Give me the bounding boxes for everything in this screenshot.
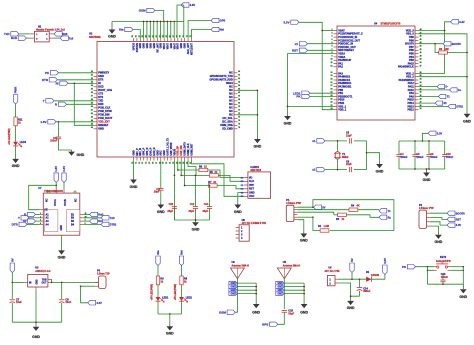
svg-text:D+: D+ bbox=[458, 89, 462, 92]
wire x1 to PD0 bbox=[308, 43, 334, 45]
capacitor C4 10pF bbox=[158, 187, 163, 189]
net flag DTR2 u4 bbox=[419, 105, 449, 107]
capacitor C14 390uF bbox=[359, 279, 361, 287]
svg-text:GND: GND bbox=[234, 210, 242, 214]
connector U8 JST PH 2.54MM 5 PIN bbox=[239, 225, 249, 241]
wire BOOT0 bbox=[419, 43, 444, 45]
svg-text:2: 2 bbox=[40, 216, 41, 218]
wire antenna1 gnd 3 bbox=[237, 289, 256, 291]
svg-text:C12: C12 bbox=[190, 203, 195, 206]
svg-text:NC: NC bbox=[46, 198, 49, 202]
svg-text:68: 68 bbox=[238, 99, 240, 101]
ground regulator bbox=[35, 322, 37, 327]
svg-text:GND: GND bbox=[435, 240, 443, 244]
wire VSS rail right bbox=[419, 34, 468, 112]
wire T to TXD bbox=[54, 100, 94, 102]
wires USIM group down bbox=[173, 161, 175, 221]
wire VDD_3 to rail bbox=[419, 30, 445, 32]
svg-text:10K: 10K bbox=[445, 48, 450, 51]
wire antenna2 gnd 1 bbox=[284, 282, 304, 284]
wire PK to PWRKEY bbox=[59, 72, 94, 74]
svg-text:21: 21 bbox=[331, 98, 333, 100]
wire P3 to 3.3V flag bbox=[81, 286, 88, 303]
wire antenna2 gnd 2 bbox=[284, 286, 304, 288]
svg-text:13: 13 bbox=[331, 72, 333, 74]
IC U7 level translator bbox=[43, 193, 80, 235]
svg-text:GND: GND bbox=[231, 294, 236, 296]
wire R11 to LED4 bbox=[15, 126, 17, 142]
net flag GPS bbox=[211, 18, 219, 22]
net flag 5V p1 bbox=[314, 205, 322, 209]
svg-text:43: 43 bbox=[91, 116, 93, 119]
net flag BOOT0 bbox=[443, 42, 451, 46]
svg-text:RI: RI bbox=[56, 81, 59, 85]
U7 left pin stubs bbox=[40, 214, 44, 216]
svg-text:GND: GND bbox=[347, 306, 355, 310]
wire U2 pin to C4 bbox=[160, 161, 162, 189]
svg-text:33pF: 33pF bbox=[202, 210, 208, 213]
junction right rail bbox=[257, 114, 259, 116]
resistor R6 10K pullup bbox=[439, 51, 448, 54]
svg-text:3.3V: 3.3V bbox=[62, 166, 66, 172]
wire P1 pin5 bbox=[297, 216, 313, 218]
svg-text:GND: GND bbox=[284, 122, 292, 126]
svg-text:16: 16 bbox=[331, 82, 333, 84]
ground key bbox=[462, 284, 464, 289]
svg-text:GND: GND bbox=[58, 255, 66, 259]
svg-text:3.8V: 3.8V bbox=[383, 258, 387, 264]
net flag GPS bottom bbox=[270, 322, 278, 326]
svg-text:10: 10 bbox=[331, 59, 333, 61]
ground right of U4 bbox=[466, 112, 468, 114]
ground crystal bbox=[379, 162, 381, 164]
net flag GND antenna1 3 bbox=[229, 288, 238, 292]
svg-text:4: 4 bbox=[40, 222, 41, 225]
wire VSS_1 to rail bbox=[288, 105, 334, 107]
ground right of U2 bbox=[256, 137, 258, 139]
ground GND23 bbox=[111, 22, 113, 30]
junction dots USIM bbox=[174, 175, 176, 177]
svg-text:4: 4 bbox=[331, 38, 332, 41]
diode D1 1N4001 bbox=[366, 277, 372, 282]
svg-text:46: 46 bbox=[91, 126, 93, 129]
ground LEDs bbox=[169, 325, 171, 327]
wire bus extension bbox=[174, 21, 184, 23]
svg-text:19: 19 bbox=[163, 162, 165, 164]
wire SIM VPP bbox=[195, 167, 197, 176]
capacitor C5 22pF bbox=[349, 138, 351, 143]
wire LED join rail bbox=[158, 313, 182, 315]
U4 left pins bbox=[334, 30, 338, 32]
svg-text:GND: GND bbox=[376, 170, 384, 174]
IC U3 AMS1117-3.3 bbox=[28, 274, 48, 287]
wire VSS_2 to rail bbox=[419, 76, 468, 78]
svg-text:x1: x1 bbox=[312, 139, 316, 143]
net flag PK bbox=[50, 71, 58, 75]
wire antenna1 gnd 4 bbox=[237, 293, 256, 295]
net flag 1.8V bbox=[48, 120, 56, 124]
net flag R1 bbox=[419, 102, 436, 104]
SIM card pins bbox=[244, 177, 248, 179]
svg-text:11: 11 bbox=[331, 62, 333, 64]
svg-text:3: 3 bbox=[331, 36, 332, 38]
capacitor C12 33pF bbox=[195, 175, 197, 206]
svg-text:42: 42 bbox=[91, 112, 93, 115]
svg-text:SIM7600E: SIM7600E bbox=[89, 36, 101, 39]
wire vertical DTR net bbox=[74, 83, 93, 125]
net flag DTR2 u7 bbox=[83, 223, 101, 225]
U7 NC circles bbox=[47, 191, 49, 193]
wire U6 pin2 to ground rail bbox=[339, 283, 360, 296]
wire to SIM VCC bbox=[191, 164, 244, 197]
crystal Y1 8MHz bbox=[335, 152, 340, 159]
wire regulator bottom rail bbox=[12, 321, 61, 323]
svg-text:40: 40 bbox=[420, 54, 422, 57]
svg-text:16: 16 bbox=[152, 162, 154, 164]
svg-text:GND: GND bbox=[300, 239, 308, 243]
wire D1 to 3.8V flag bbox=[372, 275, 385, 280]
svg-text:12: 12 bbox=[139, 162, 141, 164]
wire OE loop bbox=[29, 185, 57, 209]
svg-text:T: T bbox=[18, 216, 20, 220]
ground below C11 bbox=[71, 150, 73, 152]
net flag RxD bbox=[18, 36, 26, 40]
net flag T bbox=[46, 99, 54, 103]
svg-text:GND: GND bbox=[463, 120, 471, 124]
wire R2 to junction bbox=[313, 217, 320, 230]
wire VCCB down bbox=[63, 190, 65, 194]
wire crystal right vertical bbox=[366, 141, 368, 170]
net flag RST p2 bbox=[447, 217, 455, 221]
svg-text:RST: RST bbox=[456, 218, 462, 222]
wire U2 right pin to GND rail bbox=[238, 90, 258, 137]
svg-text:37: 37 bbox=[91, 96, 93, 98]
svg-text:76: 76 bbox=[238, 127, 240, 129]
svg-text:30: 30 bbox=[420, 92, 422, 94]
svg-text:71: 71 bbox=[238, 110, 240, 112]
svg-text:5V: 5V bbox=[322, 205, 325, 209]
capacitor C16 33pF bbox=[172, 206, 177, 208]
svg-text:64: 64 bbox=[238, 84, 240, 87]
svg-text:PA2: PA2 bbox=[338, 66, 343, 69]
net flag Sta bbox=[125, 27, 133, 31]
svg-text:13: 13 bbox=[142, 162, 144, 164]
net flag T1 bbox=[419, 96, 439, 98]
svg-text:GND: GND bbox=[108, 34, 116, 38]
svg-text:67: 67 bbox=[238, 96, 240, 98]
svg-text:GND: GND bbox=[423, 178, 431, 182]
wire VSS rail left bbox=[288, 54, 334, 114]
svg-text:38: 38 bbox=[420, 62, 422, 64]
net flag 5V vertical u6 bbox=[350, 263, 354, 273]
net flag 3.3V top left of U4 bbox=[291, 20, 299, 24]
wire P1 loop bbox=[313, 200, 394, 231]
svg-text:10pF: 10pF bbox=[154, 191, 160, 194]
svg-text:LED2: LED2 bbox=[186, 296, 193, 299]
wire Net to pin bbox=[192, 30, 212, 39]
net flag 3.3V cap bank bbox=[428, 131, 436, 135]
wire DTR to pin bbox=[57, 79, 93, 81]
svg-text:10uF: 10uF bbox=[16, 301, 22, 304]
svg-text:61: 61 bbox=[238, 75, 240, 77]
svg-text:I/O: I/O bbox=[249, 176, 252, 179]
ground cap bank bbox=[426, 169, 428, 173]
net flag Rx2 u7 bbox=[83, 220, 89, 222]
svg-text:3.5mm T2P: 3.5mm T2P bbox=[97, 273, 110, 276]
wire antenna1 stem bbox=[235, 279, 237, 313]
svg-text:66: 66 bbox=[238, 92, 240, 94]
svg-text:14: 14 bbox=[145, 162, 148, 164]
wire U3 OUT to P3 bbox=[51, 281, 98, 283]
svg-text:2.54mm 1*6P: 2.54mm 1*6P bbox=[286, 202, 301, 205]
svg-text:GND: GND bbox=[98, 128, 104, 131]
capacitor C10 100nF bbox=[444, 141, 446, 154]
wire LED1 to PB1 bbox=[310, 92, 334, 94]
svg-text:33pF: 33pF bbox=[167, 210, 173, 213]
wire 3.3V rail left bbox=[299, 22, 334, 109]
wire LED1 down bbox=[157, 301, 159, 314]
wire 3.8V down bbox=[177, 5, 184, 38]
svg-text:PWR: PWR bbox=[14, 87, 18, 94]
svg-text:GND: GND bbox=[192, 228, 200, 232]
svg-text:+5V-LED(PWR): +5V-LED(PWR) bbox=[151, 284, 153, 301]
wire U2 right pin 2 bbox=[238, 114, 258, 116]
svg-text:8MHz: 8MHz bbox=[342, 156, 349, 159]
wire GPS to pin bbox=[188, 21, 211, 39]
svg-text:62: 62 bbox=[238, 78, 240, 80]
svg-text:GND: GND bbox=[60, 225, 63, 231]
resistor R6 22 bbox=[199, 168, 208, 171]
svg-text:GND: GND bbox=[12, 164, 20, 168]
wire RI to pin bbox=[68, 82, 94, 84]
svg-text:TxD: TxD bbox=[4, 32, 11, 36]
net flag GND antenna1 4 bbox=[229, 292, 238, 296]
svg-text:SD_CMD: SD_CMD bbox=[222, 128, 233, 131]
svg-text:43: 43 bbox=[420, 45, 422, 48]
net flag R u7 bbox=[28, 212, 36, 216]
svg-text:3.3V: 3.3V bbox=[97, 301, 103, 305]
net flag 5V vertical bbox=[10, 263, 14, 273]
wire LED rail to ground bbox=[169, 314, 171, 325]
wire antenna2 gnd 3 bbox=[284, 289, 304, 291]
wire P3 pin2 bbox=[81, 285, 95, 287]
net flag Tx3 bbox=[54, 37, 60, 39]
wire to capacitor C11 bbox=[58, 122, 60, 137]
wire button left lower bbox=[428, 267, 435, 271]
svg-text:42: 42 bbox=[420, 48, 422, 51]
svg-text:390uF: 390uF bbox=[363, 290, 371, 293]
svg-text:34: 34 bbox=[91, 84, 93, 87]
svg-text:17: 17 bbox=[331, 85, 333, 87]
svg-text:VCCB: VCCB bbox=[64, 199, 67, 206]
U3 pin stubs bbox=[24, 281, 28, 283]
connector CARD1 SIM-8 18 bbox=[248, 172, 271, 198]
ground LED4 bbox=[15, 157, 17, 159]
net flag PWR vertical bbox=[13, 95, 17, 105]
connector P2 2.54mm 1*4P bbox=[419, 210, 427, 228]
wire P1 pin6 to ground bbox=[297, 220, 303, 232]
net flag GSM top bbox=[147, 8, 155, 12]
wire 5V flag stem bbox=[351, 273, 353, 280]
svg-text:Tx3: Tx3 bbox=[69, 36, 74, 40]
svg-text:3.3V: 3.3V bbox=[437, 131, 443, 135]
svg-text:USIM_RST: USIM_RST bbox=[190, 143, 193, 156]
wire U2 bottom pin1 to ground bbox=[133, 161, 135, 178]
svg-text:VDD_1: VDD_1 bbox=[338, 109, 347, 112]
svg-text:15: 15 bbox=[149, 162, 151, 164]
wire cap bank bottom rail bbox=[399, 168, 445, 170]
svg-text:OE: OE bbox=[44, 209, 48, 212]
wire VCCA down bbox=[55, 190, 57, 194]
resistor R8 1k bbox=[180, 276, 183, 285]
net flag x2 crystal bbox=[317, 167, 325, 171]
svg-text:1.5M: 1.5M bbox=[324, 225, 329, 228]
svg-text:Net: Net bbox=[180, 250, 184, 255]
svg-text:1: 1 bbox=[40, 213, 41, 215]
svg-text:U2: U2 bbox=[89, 31, 93, 35]
connector U6 JST XH 2 PIN bbox=[327, 276, 335, 286]
svg-text:x2: x2 bbox=[312, 168, 316, 172]
svg-text:DTR2: DTR2 bbox=[456, 106, 463, 109]
svg-text:JST XH 2 PIN: JST XH 2 PIN bbox=[324, 270, 339, 273]
wire top VBAT bus bbox=[112, 21, 174, 23]
svg-text:6: 6 bbox=[331, 46, 332, 48]
svg-text:100nF: 100nF bbox=[430, 156, 438, 159]
net flag PK u4 bbox=[302, 94, 310, 98]
net flag GND antenna1 1 bbox=[229, 281, 238, 285]
svg-text:2: 2 bbox=[331, 32, 332, 34]
wire RxD to H1 bbox=[26, 37, 29, 39]
capacitor C8 100nF bbox=[414, 141, 416, 154]
junction dots cap bank bbox=[414, 140, 416, 142]
svg-text:14: 14 bbox=[331, 74, 333, 77]
wire R6 to SIM IO bbox=[208, 170, 244, 178]
net flag PK key bbox=[407, 265, 415, 269]
junction 1.8V branch bbox=[58, 121, 60, 123]
svg-text:GND: GND bbox=[77, 153, 85, 157]
svg-text:25: 25 bbox=[420, 108, 422, 110]
svg-text:Antenna SMA-H: Antenna SMA-H bbox=[283, 265, 301, 268]
svg-text:34: 34 bbox=[420, 78, 422, 81]
wire P2 pin3 to 3.3V bbox=[430, 222, 447, 225]
svg-text:GND: GND bbox=[300, 310, 308, 314]
svg-text:GSM: GSM bbox=[139, 9, 146, 13]
wire antenna1 gnd 2 bbox=[237, 286, 256, 288]
wire 1.8V to VDD_EXT bbox=[56, 121, 94, 123]
wire R3 left bbox=[334, 214, 338, 216]
svg-text:5V: 5V bbox=[350, 258, 354, 262]
svg-text:100nF: 100nF bbox=[50, 140, 58, 143]
svg-text:+5V-LED(PWR): +5V-LED(PWR) bbox=[9, 128, 11, 145]
wire antenna2 gnd 4 bbox=[284, 293, 304, 295]
U7 inner block B bbox=[66, 210, 79, 232]
net flag GND antenna1 2 bbox=[229, 285, 238, 289]
U2 right pins bbox=[234, 72, 238, 74]
svg-text:TxD: TxD bbox=[110, 217, 115, 220]
net flag Net bbox=[211, 27, 219, 31]
svg-text:DTR2: DTR2 bbox=[110, 224, 117, 227]
svg-text:Sta: Sta bbox=[119, 28, 124, 32]
wire TAB join bbox=[50, 279, 52, 282]
svg-text:OUT: OUT bbox=[42, 282, 48, 285]
ground caps rail bbox=[195, 220, 197, 222]
net flag 3.3V vertical bbox=[62, 173, 66, 183]
U4 right pins bbox=[415, 30, 419, 32]
svg-text:GND: GND bbox=[166, 332, 174, 336]
net flag LED1 bbox=[302, 91, 310, 95]
pin stubs H1 bbox=[30, 33, 35, 35]
net flag 3.3V top right of U4 bbox=[451, 20, 459, 24]
svg-text:Net: Net bbox=[220, 28, 224, 32]
wire PWR to R11 bbox=[15, 104, 17, 117]
net flag GND antenna2 3 bbox=[276, 288, 285, 292]
svg-text:33: 33 bbox=[420, 82, 422, 84]
resistor R11 1k bbox=[14, 117, 17, 126]
U7 inner block A bbox=[45, 210, 58, 232]
svg-text:100nF: 100nF bbox=[400, 156, 408, 159]
svg-text:3.3V: 3.3V bbox=[459, 20, 465, 24]
svg-text:39: 39 bbox=[420, 59, 422, 61]
net flag TxD bbox=[11, 32, 19, 36]
wire 5V to U3 IN bbox=[12, 281, 24, 283]
ground SIM bbox=[237, 203, 239, 205]
wire caps to rail bbox=[173, 209, 175, 220]
ground P2 bbox=[437, 233, 439, 235]
svg-text:3.3V: 3.3V bbox=[283, 20, 289, 24]
wire Sta to pin bbox=[133, 30, 140, 39]
ground left of U4 bbox=[287, 114, 289, 116]
wire U6 pin1 to diode bbox=[339, 278, 367, 280]
svg-text:NETLIGHT: NETLIGHT bbox=[190, 42, 193, 54]
svg-text:46: 46 bbox=[420, 35, 422, 38]
wire VBAT to rail bbox=[322, 30, 333, 32]
svg-text:GND: GND bbox=[157, 210, 165, 214]
wire LED4 to ground bbox=[15, 146, 17, 157]
svg-text:3.3V: 3.3V bbox=[456, 223, 462, 227]
svg-text:69: 69 bbox=[180, 35, 182, 37]
svg-text:GND: GND bbox=[36, 279, 38, 284]
wire C4 to ground bbox=[160, 191, 162, 203]
wire R6 to VSS rail bbox=[447, 52, 467, 54]
ground U7 bbox=[61, 249, 63, 251]
bus vertical wires to U2 top pins bbox=[143, 22, 145, 39]
svg-text:GND: GND bbox=[277, 294, 282, 296]
svg-text:45: 45 bbox=[420, 38, 422, 41]
wire C6 to right rail bbox=[354, 169, 367, 171]
resistor R3 bbox=[338, 213, 347, 216]
svg-text:55: 55 bbox=[132, 35, 134, 37]
svg-text:VCC: VCC bbox=[249, 195, 254, 198]
wire P1 pin2 to R4 bbox=[297, 209, 349, 211]
svg-text:GPS: GPS bbox=[220, 19, 226, 23]
svg-text:RST: RST bbox=[249, 188, 254, 191]
net flag TxD u7 bbox=[83, 217, 101, 219]
svg-text:SIM 0118: SIM 0118 bbox=[250, 169, 261, 172]
svg-text:22pF: 22pF bbox=[346, 134, 352, 137]
svg-text:1.8V: 1.8V bbox=[54, 166, 58, 172]
svg-text:33pF: 33pF bbox=[288, 313, 294, 316]
capacitor C4 100nF bbox=[398, 141, 400, 154]
svg-text:GND: GND bbox=[32, 335, 40, 339]
wire Net to R8 bbox=[181, 266, 183, 277]
wire bottom rail caps bbox=[174, 219, 209, 221]
net flag D+ bbox=[419, 89, 450, 91]
svg-text:C14: C14 bbox=[204, 203, 209, 206]
svg-text:70: 70 bbox=[238, 106, 240, 108]
svg-text:AMS1117-3.3: AMS1117-3.3 bbox=[35, 270, 51, 273]
svg-text:18: 18 bbox=[331, 88, 333, 90]
ground U6 bbox=[350, 296, 352, 301]
